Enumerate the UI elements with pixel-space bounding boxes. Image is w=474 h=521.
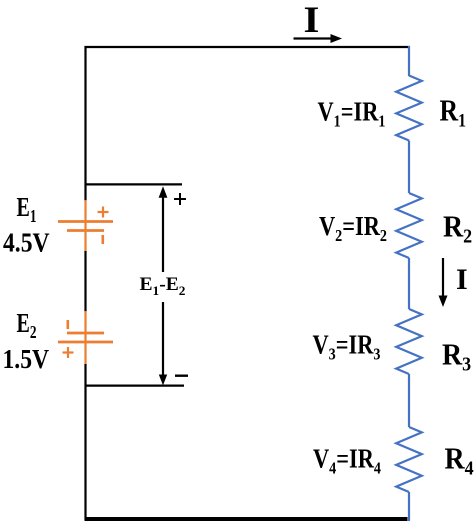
arrow E1-E2 lower shaft bbox=[162, 302, 164, 378]
label V4=IR4 bbox=[313, 445, 381, 478]
label I top bbox=[304, 0, 320, 41]
label E1 bbox=[17, 193, 37, 226]
wire top (node between E1+ and R1) bbox=[85, 46, 411, 48]
label R1 bbox=[440, 94, 466, 130]
wire bottom bbox=[85, 517, 408, 521]
wire stub bottom (tap at E2 - side) bbox=[86, 385, 184, 387]
resistor R4 bbox=[396, 427, 422, 492]
wire stub top (tap at E1 + side) bbox=[86, 183, 182, 185]
svg-text:I: I bbox=[304, 0, 320, 41]
wire right between R2 and R3 (blue) bbox=[408, 258, 410, 309]
battery E1 negative plate (short) bbox=[67, 229, 104, 232]
wire right between R1 and R2 (blue) bbox=[408, 141, 410, 194]
current arrow right shaft bbox=[442, 258, 444, 297]
battery E1 positive plate (long) bbox=[58, 220, 113, 223]
current arrow top head bbox=[331, 34, 343, 43]
wire left upper (black) bbox=[84, 46, 86, 201]
battery E2 negative plate (short) bbox=[67, 332, 104, 335]
label E1-E2 bbox=[140, 274, 186, 298]
battery E2 positive plate (long) bbox=[58, 341, 113, 344]
label E2 bbox=[17, 309, 37, 342]
battery E2 minus mark (vertical tick) bbox=[67, 320, 70, 329]
svg-text:I: I bbox=[456, 263, 468, 296]
label V2=IR2 bbox=[319, 212, 387, 245]
current arrow right head bbox=[439, 296, 448, 308]
wire left middle (black, between E1 and E2) bbox=[84, 251, 86, 312]
battery E2 plus mark bbox=[63, 347, 74, 358]
node minus sign (bottom of E1-E2 arrow) bbox=[175, 375, 188, 377]
wire right top (blue) bbox=[408, 46, 410, 76]
svg-text:V2=IR2: V2=IR2 bbox=[319, 212, 387, 245]
svg-text:V4=IR4: V4=IR4 bbox=[313, 445, 381, 478]
arrow E1-E2 upper shaft bbox=[162, 194, 164, 272]
svg-text:V3=IR3: V3=IR3 bbox=[313, 331, 381, 364]
svg-text:V1=IR1: V1=IR1 bbox=[318, 98, 386, 131]
resistor R3 bbox=[396, 309, 422, 374]
label 4.5V bbox=[3, 228, 50, 258]
wire left lower (black) bbox=[84, 364, 86, 520]
wire right bottom (blue) bbox=[408, 492, 410, 521]
wire E2 lead (orange) bbox=[84, 311, 86, 365]
resistor R2 bbox=[396, 193, 422, 258]
battery E1 minus mark (vertical tick) bbox=[102, 235, 105, 244]
svg-text:4.5V: 4.5V bbox=[3, 228, 50, 258]
label R4 bbox=[445, 442, 474, 480]
battery E1 plus mark bbox=[98, 207, 109, 218]
label R2 bbox=[443, 210, 472, 248]
wire right between R3 and R4 (blue) bbox=[408, 374, 410, 427]
label V3=IR3 bbox=[313, 331, 381, 364]
current arrow top shaft bbox=[294, 37, 334, 39]
label V1=IR1 bbox=[318, 98, 386, 131]
svg-text:1.5V: 1.5V bbox=[3, 345, 50, 375]
wire E1 lead (orange) bbox=[84, 200, 86, 252]
arrow E1-E2 upper head bbox=[159, 186, 168, 198]
resistor R1 bbox=[396, 76, 422, 141]
arrow E1-E2 lower head bbox=[159, 375, 167, 386]
node plus sign (top of E1-E2 arrow) bbox=[174, 193, 186, 205]
label R3 bbox=[442, 338, 471, 376]
label 1.5V bbox=[3, 345, 50, 375]
